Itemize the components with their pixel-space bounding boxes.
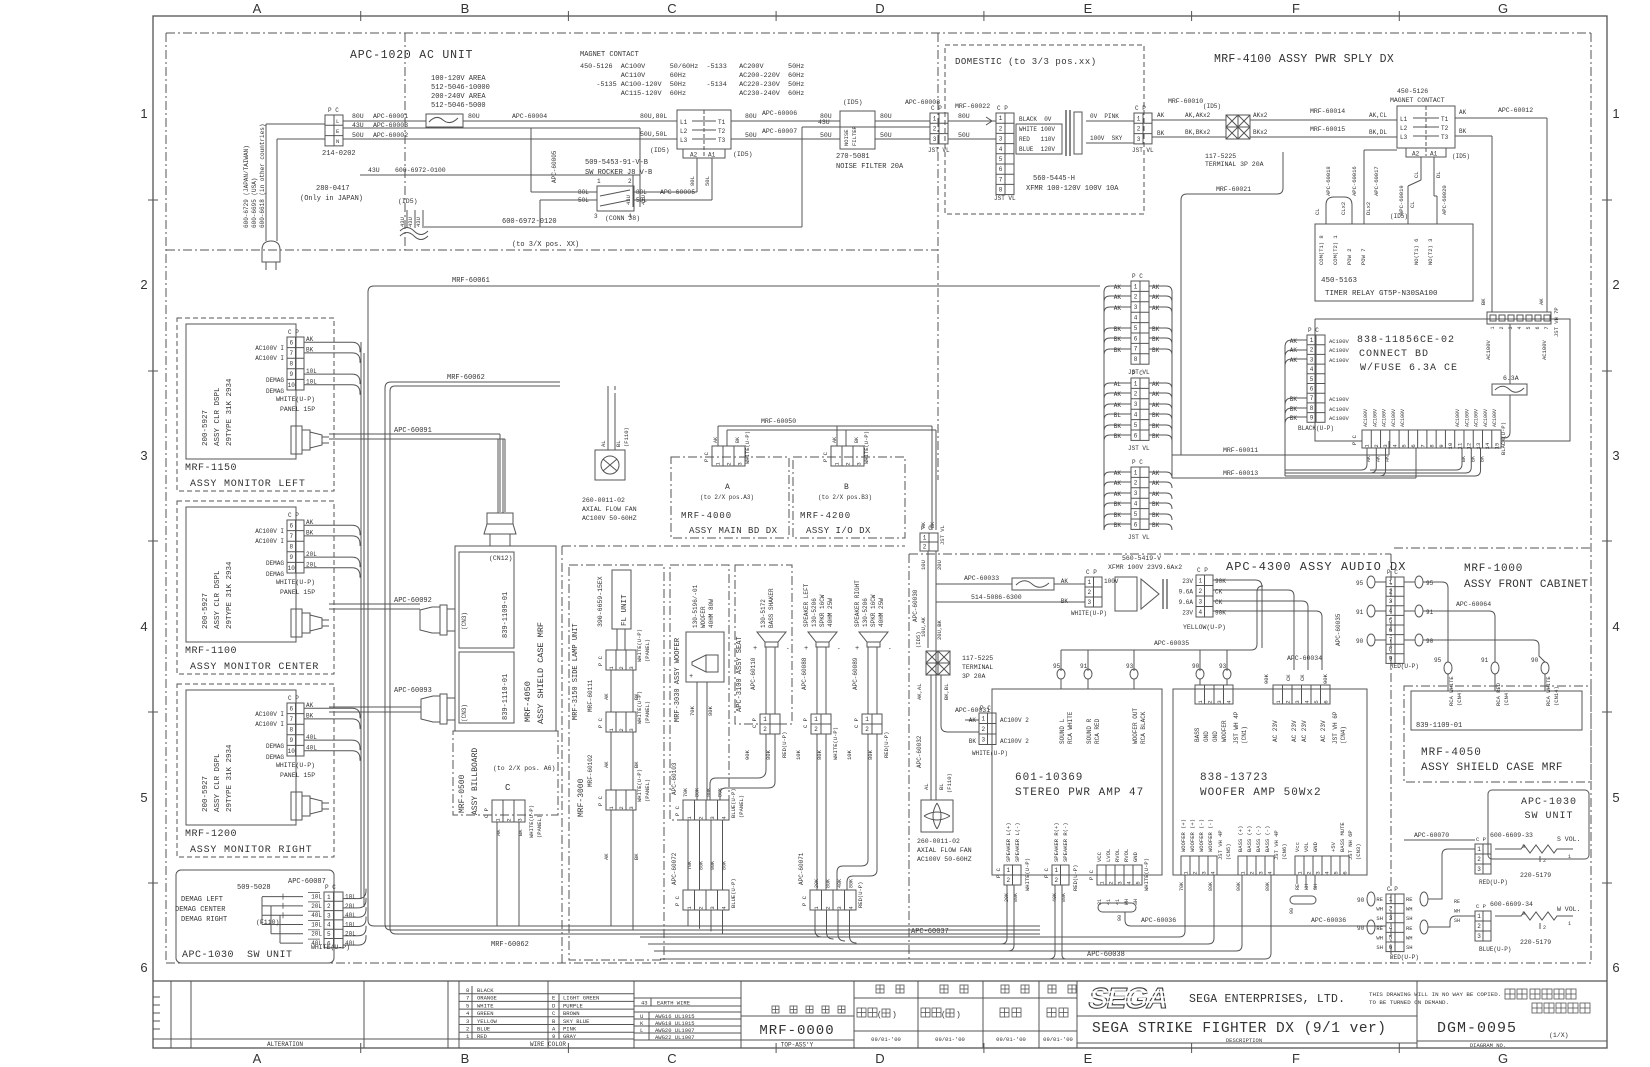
svg-text:BK: BK bbox=[1152, 412, 1160, 419]
svg-text:3: 3 bbox=[999, 136, 1003, 143]
svg-text:WHITE(U-P): WHITE(U-P) bbox=[636, 629, 643, 662]
wire BK down right bbox=[1455, 135, 1492, 137]
svg-text:WHITE(U-P): WHITE(U-P) bbox=[1143, 858, 1150, 891]
svg-text:AC100V: AC100V bbox=[1492, 409, 1498, 427]
wire 80U APC-60001 bbox=[343, 120, 426, 122]
svg-text:600-6729 (JAPAN/TAIWAN): 600-6729 (JAPAN/TAIWAN) bbox=[243, 145, 250, 228]
svg-text:DL: DL bbox=[1435, 171, 1442, 178]
svg-text:WIRE COLOR: WIRE COLOR bbox=[530, 1041, 566, 1048]
svg-text:RVOL: RVOL bbox=[1114, 849, 1121, 862]
svg-text:RCA WHITE: RCA WHITE bbox=[1067, 711, 1074, 744]
row tick marks left/right bbox=[148, 199, 158, 201]
svg-text:40L: 40L bbox=[345, 940, 356, 947]
svg-text:(ID5): (ID5) bbox=[1452, 153, 1470, 160]
SW unit APC-1030 box bbox=[176, 870, 334, 963]
svg-text:RCA BLACK: RCA BLACK bbox=[1140, 711, 1147, 744]
PWR SPLY region dash-dot left border bbox=[937, 33, 939, 480]
stereo amp box 601-10369 bbox=[992, 689, 1162, 875]
svg-text:RED(U-P): RED(U-P) bbox=[781, 732, 788, 758]
svg-text:2: 2 bbox=[1477, 856, 1481, 863]
svg-text:MRF-1200: MRF-1200 bbox=[185, 829, 237, 840]
svg-text:DEMAG: DEMAG bbox=[266, 754, 284, 761]
wire 50U APC-60002 bbox=[343, 138, 677, 140]
svg-text:APC-60103: APC-60103 bbox=[671, 762, 678, 795]
svg-text:90: 90 bbox=[1357, 897, 1365, 904]
SW unit output wires to trunk bbox=[358, 889, 366, 899]
svg-text:1: 1 bbox=[1134, 469, 1138, 476]
svg-text:2: 2 bbox=[726, 462, 733, 465]
svg-text:APC-60016: APC-60016 bbox=[1351, 166, 1358, 196]
svg-text:6.3A: 6.3A bbox=[1503, 375, 1519, 382]
right SW unit box bbox=[1488, 790, 1589, 859]
svg-text:260-0011-02: 260-0011-02 bbox=[582, 497, 625, 504]
svg-text:AL: AL bbox=[923, 783, 930, 790]
svg-text:7: 7 bbox=[289, 533, 293, 540]
svg-text:AK: AK bbox=[1114, 491, 1122, 498]
svg-text:3: 3 bbox=[1477, 933, 1481, 940]
svg-text:10K: 10K bbox=[846, 749, 853, 760]
svg-text:WOOFER (-): WOOFER (-) bbox=[1198, 819, 1205, 852]
woofer wires to bus bbox=[687, 910, 689, 926]
svg-text:4: 4 bbox=[1134, 315, 1138, 322]
svg-text:90: 90 bbox=[1531, 657, 1539, 664]
relay coil wires CL DL bbox=[1420, 157, 1422, 180]
MRF-1200 AC wires to trunk bbox=[304, 708, 360, 718]
svg-text:APC-1020 AC UNIT: APC-1020 AC UNIT bbox=[350, 49, 473, 62]
svg-text:200-5927: 200-5927 bbox=[202, 410, 210, 446]
woofer wires between connectors bbox=[687, 820, 689, 890]
svg-text:GREEN: GREEN bbox=[477, 1010, 494, 1017]
svg-text:WHITE 100V: WHITE 100V bbox=[1019, 126, 1055, 133]
svg-text:2: 2 bbox=[618, 728, 625, 731]
svg-text:3: 3 bbox=[1201, 871, 1208, 874]
stereo amp bottom connector speaker L bbox=[1004, 865, 1021, 885]
svg-text:P C: P C bbox=[1351, 434, 1358, 445]
svg-text:AC 23V: AC 23V bbox=[1291, 720, 1298, 742]
svg-text:E: E bbox=[1084, 1051, 1093, 1066]
audio region dash-dot top border bbox=[909, 553, 1391, 555]
svg-text:RCA RED: RCA RED bbox=[1094, 718, 1101, 744]
svg-text:29TYPE 31K 2934: 29TYPE 31K 2934 bbox=[226, 378, 234, 446]
svg-text:1: 1 bbox=[327, 894, 331, 901]
svg-text:117-5225: 117-5225 bbox=[962, 655, 993, 662]
svg-text:JST WH 4P: JST WH 4P bbox=[1233, 711, 1240, 744]
svg-text:5: 5 bbox=[1389, 934, 1393, 941]
svg-text:93: 93 bbox=[1126, 663, 1134, 670]
woofer amp top connector CN4 bbox=[1273, 685, 1330, 704]
speaker wires to APC-60071 bbox=[816, 734, 818, 890]
svg-text:APC-3100 ASSY SEAT: APC-3100 ASSY SEAT bbox=[736, 636, 744, 712]
svg-text:1: 1 bbox=[763, 716, 767, 723]
svg-text:1: 1 bbox=[1568, 854, 1571, 860]
woofer amp bottom connector CN3 bbox=[1295, 856, 1349, 875]
svg-text:L3: L3 bbox=[1400, 134, 1408, 141]
svg-text:AK: AK bbox=[1152, 391, 1160, 398]
stereo vcc jumper pill bbox=[1098, 903, 1136, 912]
svg-text:BK: BK bbox=[735, 437, 741, 443]
side lamp wires 2-3 bbox=[610, 732, 612, 790]
svg-text:AK: AK bbox=[495, 829, 502, 836]
MRF-1150 ASSY MONITOR LEFT dashed box bbox=[177, 318, 334, 491]
svg-text:C P: C P bbox=[1476, 836, 1486, 843]
svg-text:600-6972-0120: 600-6972-0120 bbox=[502, 218, 557, 226]
svg-text:NO(T1) 6: NO(T1) 6 bbox=[1413, 239, 1420, 265]
svg-text:(ID5): (ID5) bbox=[1390, 213, 1408, 220]
svg-text:ASSY CLR DSPL: ASSY CLR DSPL bbox=[214, 570, 222, 629]
svg-text:AC100V: AC100V bbox=[1363, 409, 1369, 427]
svg-text:BK: BK bbox=[969, 738, 977, 745]
svg-text:MRF-0000: MRF-0000 bbox=[759, 1023, 834, 1039]
svg-text:C P: C P bbox=[1476, 903, 1486, 910]
svg-text:WOOFER: WOOFER bbox=[700, 606, 707, 628]
sw rocker feed wire bbox=[530, 128, 532, 192]
cabinet region dash-dot border right bbox=[1590, 33, 1592, 963]
svg-text:8: 8 bbox=[289, 727, 293, 734]
stereo amp rca inputs bbox=[1060, 650, 1062, 671]
svg-text:2: 2 bbox=[1134, 294, 1138, 301]
JST VL ladder bank 1 bbox=[1131, 281, 1149, 364]
FL unit wires to connector bbox=[616, 629, 618, 650]
video cable APC-60092 wires bbox=[329, 603, 420, 605]
video cable APC-60091 wires bbox=[329, 433, 500, 435]
svg-text:MRF-1100: MRF-1100 bbox=[185, 646, 237, 657]
svg-text:10: 10 bbox=[288, 382, 296, 389]
svg-text:RED(U-P): RED(U-P) bbox=[1072, 865, 1079, 891]
trunk bus MRF-60061 vertical bbox=[368, 286, 1100, 926]
svg-text:600-6618 (in other countries): 600-6618 (in other countries) bbox=[259, 124, 266, 228]
svg-text:270-5081: 270-5081 bbox=[836, 153, 870, 161]
svg-text:RE: RE bbox=[1376, 896, 1383, 903]
svg-text:MRF-4050: MRF-4050 bbox=[1421, 747, 1482, 759]
svg-text:600-6695 (USA): 600-6695 (USA) bbox=[251, 178, 258, 228]
svg-text:AK,AKx2: AK,AKx2 bbox=[1185, 112, 1211, 119]
svg-text:2: 2 bbox=[1054, 877, 1058, 884]
svg-text:AK: AK bbox=[1152, 480, 1160, 487]
svg-text:L: L bbox=[336, 118, 339, 125]
svg-text:ORANGE: ORANGE bbox=[477, 995, 498, 1002]
svg-text:APC-60033: APC-60033 bbox=[964, 575, 999, 582]
svg-text:(: ( bbox=[941, 1011, 946, 1020]
svg-text:20U: 20U bbox=[936, 560, 943, 570]
svg-text:LVOL: LVOL bbox=[1105, 849, 1112, 862]
svg-text:THIS DRAWING WILL IN NO WAY BE: THIS DRAWING WILL IN NO WAY BE COPIED. bbox=[1369, 991, 1501, 998]
side lamp connector 2 bbox=[606, 712, 636, 732]
svg-text:VOL: VOL bbox=[1303, 842, 1310, 852]
svg-text:2: 2 bbox=[824, 906, 831, 909]
svg-text:80K: 80K bbox=[722, 861, 728, 870]
svg-text:09/01-'00: 09/01-'00 bbox=[871, 1036, 901, 1043]
svg-text:APC-60002: APC-60002 bbox=[373, 132, 408, 139]
main bd MRF-4000 dash-dot box bbox=[671, 457, 789, 538]
svg-text:(CN6): (CN6) bbox=[1281, 843, 1288, 860]
svg-text:DEMAG: DEMAG bbox=[266, 571, 284, 578]
svg-text:TO BE TURNED ON DEMAND.: TO BE TURNED ON DEMAND. bbox=[1369, 999, 1449, 1006]
svg-text:1: 1 bbox=[1198, 577, 1202, 584]
svg-text:3: 3 bbox=[1117, 881, 1124, 884]
svg-text:9.6A: 9.6A bbox=[1179, 599, 1194, 606]
i/o connector B bbox=[831, 446, 864, 466]
svg-text:PURPLE: PURPLE bbox=[563, 1002, 584, 1009]
svg-text:P C: P C bbox=[1132, 370, 1143, 377]
svg-text:10K: 10K bbox=[795, 749, 802, 760]
svg-text:MRF-60062: MRF-60062 bbox=[447, 374, 485, 382]
svg-text:6: 6 bbox=[289, 705, 293, 712]
svg-text:3: 3 bbox=[1612, 448, 1619, 463]
noise filter 270-5081 bbox=[840, 111, 875, 149]
amp bottom wires down bbox=[1006, 885, 1008, 910]
svg-text:7: 7 bbox=[1544, 326, 1550, 329]
svg-text:BK: BK bbox=[1152, 423, 1160, 430]
svg-text:JST VH 6P: JST VH 6P bbox=[1332, 711, 1339, 744]
svg-text:JST VL: JST VL bbox=[1128, 534, 1150, 541]
svg-text:T1: T1 bbox=[1441, 116, 1449, 123]
svg-text:(Only in JAPAN): (Only in JAPAN) bbox=[300, 195, 363, 203]
svg-text:BK: BK bbox=[1152, 326, 1160, 333]
svg-text:2: 2 bbox=[140, 277, 147, 292]
fuse 514-5086-6300 bbox=[1012, 578, 1054, 590]
volume bank plugs bbox=[1367, 892, 1375, 906]
svg-text:BK: BK bbox=[1152, 347, 1160, 354]
svg-text:1: 1 bbox=[1134, 380, 1138, 387]
svg-text:T2: T2 bbox=[718, 128, 726, 135]
svg-text:APC-60006: APC-60006 bbox=[762, 110, 797, 117]
svg-text:09/01-'00: 09/01-'00 bbox=[996, 1036, 1026, 1043]
svg-text:DGM-0095: DGM-0095 bbox=[1437, 1020, 1517, 1037]
fan 1 wires bbox=[607, 393, 609, 450]
audio feed connector JST VL bbox=[920, 533, 938, 551]
xfmr core symbol bbox=[1115, 577, 1137, 611]
svg-text:A1: A1 bbox=[1430, 151, 1438, 158]
svg-text:AK: AK bbox=[1290, 357, 1298, 364]
svg-text:BL: BL bbox=[615, 440, 622, 447]
svg-text:JST NH 6P: JST NH 6P bbox=[1347, 830, 1354, 860]
svg-text:BLUE: BLUE bbox=[477, 1026, 491, 1033]
svg-text:3: 3 bbox=[933, 136, 937, 143]
svg-text:1: 1 bbox=[1477, 846, 1481, 853]
svg-text:S VOL.: S VOL. bbox=[1557, 836, 1580, 843]
svg-text:839-1109-01: 839-1109-01 bbox=[502, 592, 510, 638]
woofer wires down bbox=[696, 682, 698, 800]
svg-text:3: 3 bbox=[628, 728, 635, 731]
svg-text:20K: 20K bbox=[814, 879, 820, 888]
svg-text:ASSY CLR DSPL: ASSY CLR DSPL bbox=[214, 387, 222, 446]
svg-text:GND: GND bbox=[1212, 731, 1219, 742]
svg-text:10L: 10L bbox=[311, 894, 322, 901]
svg-text:5: 5 bbox=[1612, 790, 1619, 805]
svg-text:1: 1 bbox=[140, 106, 147, 121]
svg-text:-: - bbox=[786, 645, 790, 652]
wire APC-60037 bbox=[640, 936, 1179, 938]
CN3 plug upper bbox=[440, 605, 447, 635]
svg-text:JST VH 4P: JST VH 4P bbox=[1217, 830, 1224, 860]
svg-text:450-5126: 450-5126 bbox=[1397, 88, 1428, 95]
svg-text:(ID5): (ID5) bbox=[733, 151, 753, 158]
svg-text:P C: P C bbox=[325, 884, 336, 891]
magnet contact MC2 aux A2 A1 bbox=[1406, 148, 1446, 157]
column tick marks top/bottom bbox=[360, 11, 362, 21]
svg-text:3: 3 bbox=[1258, 871, 1265, 874]
svg-text:2: 2 bbox=[814, 726, 818, 733]
seat wires join woofer connector bbox=[710, 734, 766, 800]
svg-text:AK: AK bbox=[1114, 391, 1122, 398]
svg-text:10L: 10L bbox=[345, 894, 356, 901]
svg-text:APC-60005: APC-60005 bbox=[551, 150, 558, 183]
svg-text:PANEL 15P: PANEL 15P bbox=[280, 772, 315, 779]
svg-text:6: 6 bbox=[1612, 960, 1619, 975]
svg-text:BLUE(U-P): BLUE(U-P) bbox=[730, 878, 737, 908]
svg-text:9: 9 bbox=[1389, 656, 1393, 663]
SW unit demag stub ticks bbox=[282, 894, 284, 900]
svg-text:(1/X): (1/X) bbox=[1549, 1032, 1569, 1039]
connect bd input ladder 9p bbox=[1307, 335, 1325, 422]
svg-text:6: 6 bbox=[1134, 432, 1138, 439]
svg-text:AK: AK bbox=[1114, 402, 1122, 409]
svg-text:WHITE(U-P): WHITE(U-P) bbox=[832, 727, 839, 760]
svg-text:3: 3 bbox=[1389, 598, 1393, 605]
svg-text:BK: BK bbox=[1152, 522, 1160, 529]
svg-text:+: + bbox=[804, 645, 808, 653]
svg-text:DIAGRAM NO.: DIAGRAM NO. bbox=[1470, 1042, 1506, 1049]
woofer amp rca inputs bbox=[1199, 650, 1201, 671]
svg-text:3: 3 bbox=[836, 906, 843, 909]
power strip bottom wires bbox=[1285, 448, 1367, 470]
svg-text:509-5028: 509-5028 bbox=[237, 884, 271, 892]
svg-text:1: 1 bbox=[999, 115, 1003, 122]
svg-text:40L: 40L bbox=[311, 912, 322, 919]
woofer amp bottom connector CN5 bbox=[1181, 856, 1217, 875]
svg-text:F: F bbox=[1292, 1051, 1300, 1066]
svg-text:AK,AL: AK,AL bbox=[916, 683, 923, 700]
svg-text:2: 2 bbox=[1543, 925, 1546, 931]
svg-text:1: 1 bbox=[1477, 913, 1481, 920]
svg-text:9: 9 bbox=[289, 737, 293, 744]
svg-text:41: 41 bbox=[1106, 899, 1112, 905]
svg-text:91: 91 bbox=[1356, 609, 1364, 616]
svg-text:F: F bbox=[1292, 1, 1300, 16]
svg-text:BK: BK bbox=[1290, 415, 1298, 422]
shield case board 839-1109-01 bbox=[459, 552, 514, 648]
svg-text:SEGA ENTERPRISES, LTD.: SEGA ENTERPRISES, LTD. bbox=[1189, 993, 1345, 1006]
wire APC-60036 left bbox=[1125, 912, 1383, 926]
seat wires down bbox=[765, 647, 767, 714]
svg-text:DEMAG RIGHT: DEMAG RIGHT bbox=[181, 916, 227, 924]
svg-text:43: 43 bbox=[641, 1000, 648, 1007]
svg-text:29TYPE 31K 2934: 29TYPE 31K 2934 bbox=[226, 561, 234, 629]
svg-text:SPEAKER L(+): SPEAKER L(+) bbox=[1005, 822, 1012, 862]
svg-text:(CN3): (CN3) bbox=[461, 704, 468, 722]
svg-text:2: 2 bbox=[1198, 588, 1202, 595]
connector JST VL AC out bbox=[930, 113, 948, 144]
shield case right board 839-1109-01 bbox=[1411, 691, 1582, 730]
svg-text:(ID5): (ID5) bbox=[843, 99, 863, 106]
AC power plug P1 bbox=[262, 241, 280, 262]
svg-text:B: B bbox=[461, 1051, 470, 1066]
svg-text:AXIAL FLOW FAN: AXIAL FLOW FAN bbox=[917, 847, 972, 854]
svg-text:3: 3 bbox=[1315, 871, 1322, 874]
svg-text:1: 1 bbox=[981, 715, 985, 722]
svg-text:TOP-ASS'Y: TOP-ASS'Y bbox=[781, 1042, 814, 1049]
svg-text:2: 2 bbox=[618, 666, 625, 669]
svg-text:JST VL: JST VL bbox=[1128, 445, 1150, 452]
svg-text:A2: A2 bbox=[1412, 151, 1420, 158]
shield case CN12 plug bbox=[487, 513, 513, 524]
svg-text:2: 2 bbox=[1477, 923, 1481, 930]
svg-text:450-5163: 450-5163 bbox=[1321, 277, 1358, 285]
svg-text:2: 2 bbox=[466, 1026, 469, 1033]
svg-text:2: 2 bbox=[933, 126, 937, 133]
svg-text:-: - bbox=[888, 645, 892, 652]
svg-text:200-5927: 200-5927 bbox=[202, 593, 210, 629]
svg-text:200-5927: 200-5927 bbox=[202, 776, 210, 812]
svg-text:130-5206: 130-5206 bbox=[862, 598, 869, 627]
svg-text:09/01-'00: 09/01-'00 bbox=[935, 1036, 965, 1043]
svg-text:C P: C P bbox=[1197, 567, 1208, 574]
svg-text:10: 10 bbox=[288, 565, 296, 572]
svg-text:3: 3 bbox=[1134, 490, 1138, 497]
svg-text:10L: 10L bbox=[345, 921, 356, 928]
svg-text:AC 23V: AC 23V bbox=[1301, 720, 1308, 742]
svg-text:BK: BK bbox=[1459, 128, 1467, 135]
cabinet region dash-dot border top bbox=[166, 32, 1591, 34]
svg-text:APC-60088: APC-60088 bbox=[801, 657, 808, 690]
svg-text:2: 2 bbox=[1108, 881, 1115, 884]
svg-text:2: 2 bbox=[618, 806, 625, 809]
svg-text:3: 3 bbox=[737, 462, 744, 465]
MRF-1100 display inner box bbox=[186, 507, 296, 642]
svg-text:APC-60003: APC-60003 bbox=[373, 122, 408, 129]
audio region dash-dot right border bbox=[1390, 554, 1392, 963]
svg-text:C: C bbox=[505, 783, 511, 793]
svg-text:+: + bbox=[855, 645, 859, 653]
FL unit box bbox=[612, 570, 631, 629]
svg-text:130-5196/-01: 130-5196/-01 bbox=[692, 584, 699, 628]
svg-text:90: 90 bbox=[1356, 638, 1364, 645]
svg-text:CL: CL bbox=[1409, 201, 1416, 208]
front cabinet ladder MRF-1000 bbox=[1386, 577, 1404, 663]
svg-text:4: 4 bbox=[1134, 501, 1138, 508]
svg-text:3: 3 bbox=[1508, 326, 1514, 329]
svg-text:560-5419-V: 560-5419-V bbox=[1122, 555, 1161, 562]
svg-text:6: 6 bbox=[1389, 944, 1393, 951]
svg-text:AC100V: AC100V bbox=[1372, 409, 1378, 427]
svg-text:AK: AK bbox=[603, 761, 610, 768]
svg-text:50U: 50U bbox=[820, 132, 832, 139]
svg-text:7: 7 bbox=[466, 995, 469, 1002]
wire APC-60012 AK bbox=[1455, 117, 1547, 119]
svg-text:G: G bbox=[1498, 1051, 1508, 1066]
svg-text:MRF-60022: MRF-60022 bbox=[955, 103, 990, 110]
svg-text:P C: P C bbox=[674, 895, 681, 906]
svg-text:APC-60035: APC-60035 bbox=[1154, 640, 1189, 647]
svg-text:3: 3 bbox=[1310, 356, 1314, 363]
svg-text:5: 5 bbox=[1134, 422, 1138, 429]
svg-text:MRF-60010: MRF-60010 bbox=[1168, 98, 1203, 105]
svg-text:3: 3 bbox=[628, 806, 635, 809]
svg-text:RED 110V: RED 110V bbox=[1019, 136, 1055, 143]
svg-text:(to 3/X pos. XX): (to 3/X pos. XX) bbox=[512, 241, 579, 249]
svg-text:93: 93 bbox=[1219, 663, 1227, 670]
svg-text:APC-60017: APC-60017 bbox=[1373, 166, 1380, 196]
svg-text:(ID5): (ID5) bbox=[1203, 103, 1221, 110]
svg-text:20L: 20L bbox=[345, 931, 356, 938]
svg-text:2: 2 bbox=[981, 726, 985, 733]
svg-text:MRF-4000: MRF-4000 bbox=[681, 511, 732, 521]
svg-text:80U: 80U bbox=[352, 113, 364, 120]
svg-text:MRF-60014: MRF-60014 bbox=[1310, 108, 1345, 115]
svg-text:7: 7 bbox=[999, 176, 1003, 183]
svg-text:10: 10 bbox=[288, 748, 296, 755]
svg-text:4: 4 bbox=[999, 146, 1003, 153]
